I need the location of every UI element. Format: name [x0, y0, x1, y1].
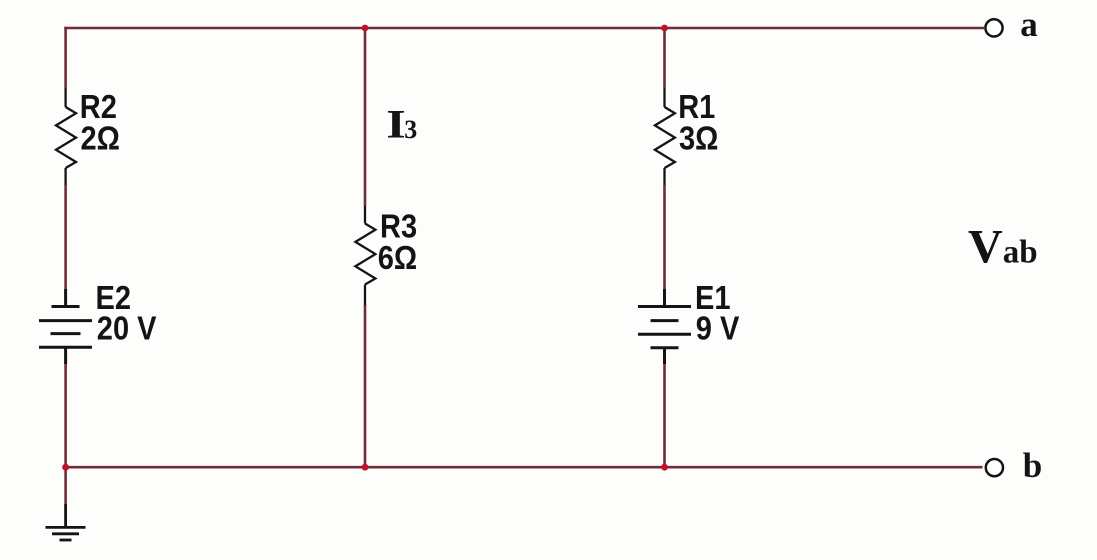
svg-text:2Ω: 2Ω: [81, 120, 120, 157]
wire right branch upper (node a to R1): [663, 27, 666, 88]
svg-text:3: 3: [404, 115, 417, 144]
svg-text:V: V: [968, 221, 1003, 274]
wire right branch middle (R1 to E1): [663, 184, 666, 290]
resistor R3: [355, 206, 375, 306]
wire top net a: left corner to terminal a: [64, 27, 984, 30]
svg-text:I: I: [386, 102, 405, 146]
battery E1: [638, 289, 691, 364]
svg-text:6Ω: 6Ω: [378, 239, 417, 276]
wire left branch lower (E2 to node b): [64, 363, 67, 467]
svg-text:b: b: [1023, 446, 1042, 485]
battery E2: [39, 289, 92, 364]
junction node b/E1 bottom: [661, 464, 668, 471]
junction node b/R3 bottom: [362, 464, 369, 471]
wire left branch middle (R2 to E2): [64, 184, 67, 290]
svg-text:a: a: [1020, 5, 1038, 44]
svg-text:20 V: 20 V: [97, 310, 157, 347]
wire left branch upper (node a to R2): [64, 27, 67, 88]
resistor R1: [655, 88, 675, 185]
junction node a/R3 top: [362, 25, 369, 32]
component labels (condensed sans): [80, 88, 740, 347]
label current I3: [386, 102, 417, 146]
junction node b/E2 bottom: [62, 464, 69, 471]
terminal b: [986, 459, 1003, 476]
wire ground stub: [64, 467, 67, 505]
terminal a: [985, 19, 1002, 36]
junction node a/R1 top: [661, 25, 668, 32]
wire bottom net b: [64, 466, 982, 469]
svg-text:ab: ab: [1003, 235, 1038, 271]
wire middle branch upper (node a to R3): [364, 27, 367, 206]
svg-text:3Ω: 3Ω: [679, 120, 718, 157]
wire middle branch lower (R3 to node b): [364, 305, 367, 467]
ground: [46, 504, 86, 540]
svg-text:9 V: 9 V: [696, 310, 740, 347]
wire right branch lower (E1 to node b): [663, 363, 666, 467]
resistor R2: [56, 88, 76, 185]
